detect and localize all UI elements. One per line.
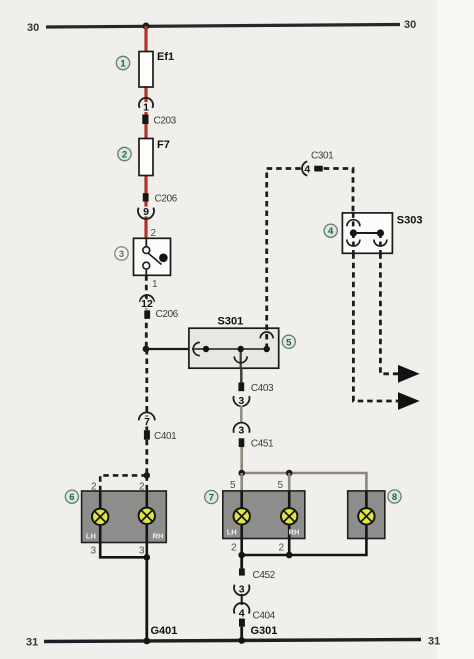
arrow right lower [398, 392, 420, 410]
connector C401 [144, 430, 177, 442]
arc pin 3 of C403 [233, 395, 249, 407]
svg-text:1: 1 [120, 59, 126, 70]
svg-text:3: 3 [119, 249, 124, 260]
svg-text:6: 6 [69, 492, 74, 503]
wire red feed from bus 30 to switch [144, 26, 147, 238]
wire lamp6 LH ground join [100, 543, 147, 558]
wire grey between connectors [240, 406, 242, 424]
svg-text:G301: G301 [251, 625, 278, 637]
svg-text:1: 1 [143, 102, 149, 114]
wire down to C452 [240, 555, 243, 568]
arrow right upper [398, 365, 420, 383]
wire dashed junction down to C401 [145, 349, 148, 430]
connector C404 [239, 611, 276, 627]
connector C452 [239, 568, 276, 581]
bus 30 line [27, 19, 416, 34]
wire dashed to lamp6 LH [100, 475, 147, 491]
wire grey down into lamp7 LH pin 5 [240, 473, 243, 491]
svg-text:C203: C203 [154, 116, 177, 127]
svg-text:RH: RH [289, 528, 300, 537]
wire grey C451 down to lamps junction [240, 447, 243, 473]
svg-text:LH: LH [227, 528, 237, 537]
svg-text:S301: S301 [218, 316, 244, 328]
wire dashed from switch pin 1 down to junction [145, 275, 148, 349]
svg-text:C452: C452 [253, 570, 276, 581]
arc pin 4 of C404 [234, 603, 249, 620]
svg-text:8: 8 [392, 492, 397, 503]
connector C301 pin 4 [302, 151, 334, 176]
arc pin 7 of C401 [139, 412, 155, 428]
wire to ground G301 [240, 627, 243, 641]
svg-text:LH: LH [86, 532, 96, 541]
node junction at S301 branch [143, 346, 150, 353]
connector C206 pin 12 [144, 309, 178, 320]
wire dashed C401 down to lamp6 junction [145, 440, 148, 476]
callout 5 [282, 335, 295, 348]
svg-text:2: 2 [122, 150, 127, 161]
svg-text:4: 4 [328, 226, 334, 237]
fuse Ef1 [139, 51, 174, 87]
pin 1 connector arc of Ef1 [139, 98, 153, 114]
node junction on bus 30 [143, 23, 150, 30]
wire to ground G401 [145, 557, 148, 641]
svg-text:3: 3 [238, 425, 244, 437]
wire junction to S301 [146, 348, 190, 350]
svg-text:Ef1: Ef1 [157, 51, 174, 63]
connector C403 pin 3 [238, 383, 274, 395]
callout 4 [324, 224, 337, 237]
callout 1 [116, 56, 129, 69]
callout 8 [388, 490, 401, 503]
wire grey down into lamp7 RH pin 5 [288, 473, 291, 491]
svg-text:5: 5 [278, 480, 284, 491]
node G401 on bus 31 [143, 638, 150, 645]
svg-text:2: 2 [151, 228, 157, 239]
lamp bulb 6 RH [139, 508, 155, 524]
svg-text:C206: C206 [155, 194, 178, 205]
bus 31 line [26, 636, 440, 649]
lamp unit 8 (license plate lamp) [348, 491, 385, 539]
lamp unit 7 (tail lamps) [223, 491, 305, 539]
arc pin 3 of C452 [234, 584, 249, 596]
svg-text:31: 31 [26, 637, 38, 649]
lamp unit 6 (front position lamps) [82, 491, 167, 543]
wire lamp7 and lamp8 grounds join [242, 539, 367, 556]
svg-text:C401: C401 [154, 431, 177, 442]
connector C451 [239, 438, 274, 449]
svg-text:F7: F7 [157, 139, 170, 151]
callout 6 [65, 490, 78, 503]
svg-text:C404: C404 [253, 611, 276, 622]
lamp bulb 6 LH [92, 509, 108, 525]
wire dashed S303 right pin to arrow [380, 253, 399, 373]
svg-text:S303: S303 [397, 215, 423, 227]
svg-text:7: 7 [209, 493, 214, 504]
wire between C452 and C404 [241, 594, 243, 605]
svg-text:5: 5 [286, 337, 292, 348]
wire grey horizontal to lamp 8 [242, 473, 367, 491]
svg-text:7: 7 [144, 416, 150, 428]
svg-text:1: 1 [152, 279, 158, 290]
node ground junction RH [286, 552, 293, 559]
svg-text:3: 3 [239, 584, 245, 596]
connector C206 pin 9 [143, 193, 178, 204]
svg-text:4: 4 [239, 608, 245, 620]
node lamp6 ground junction [144, 554, 151, 561]
arc pin 3 of C451 [233, 423, 249, 437]
svg-text:31: 31 [428, 636, 440, 648]
lamp bulb 7 RH [281, 508, 297, 524]
node at lamp7 RH feed [286, 470, 293, 477]
svg-text:9: 9 [143, 206, 149, 218]
callout 3 [115, 247, 128, 260]
switch S (light switch) [134, 238, 171, 275]
splice S301 [189, 316, 279, 369]
callout 7 [205, 490, 218, 503]
switch S303 [342, 213, 422, 253]
node ground junction LH [238, 552, 245, 559]
svg-text:30: 30 [404, 19, 416, 31]
svg-text:4: 4 [304, 163, 310, 175]
svg-text:C403: C403 [251, 383, 274, 394]
svg-text:12: 12 [141, 298, 153, 310]
node lamp6 feed junction [144, 472, 151, 479]
svg-text:3: 3 [238, 395, 244, 407]
wire S301 down to C403 [240, 368, 242, 382]
wire dashed S303 left pin to arrow [353, 253, 399, 401]
wire dashed S301 up to C301 [267, 169, 353, 350]
wire lamp6 RH ground down [146, 543, 149, 558]
fuse F7 [139, 139, 170, 176]
svg-text:G401: G401 [151, 625, 178, 637]
arc pin 12 [140, 295, 154, 310]
svg-text:C301: C301 [311, 151, 334, 162]
svg-text:C206: C206 [156, 309, 179, 320]
svg-text:5: 5 [230, 480, 236, 491]
callout 2 [118, 147, 131, 160]
lamp bulb 8 [358, 508, 374, 524]
node at lamp7 LH feed [238, 470, 245, 477]
wire lamp7 RH ground down [288, 539, 291, 556]
svg-text:RH: RH [153, 532, 164, 541]
svg-text:2: 2 [279, 543, 285, 554]
svg-text:3: 3 [91, 546, 97, 557]
svg-text:30: 30 [27, 22, 39, 34]
connector C203 [142, 115, 176, 127]
svg-text:2: 2 [231, 543, 237, 554]
svg-text:C451: C451 [251, 439, 274, 450]
svg-text:3: 3 [139, 546, 145, 557]
wire dashed to lamp6 RH [146, 475, 149, 491]
node G301 on bus 31 [238, 637, 245, 644]
lamp bulb 7 LH [234, 508, 250, 524]
arc pin 9 [138, 206, 154, 219]
